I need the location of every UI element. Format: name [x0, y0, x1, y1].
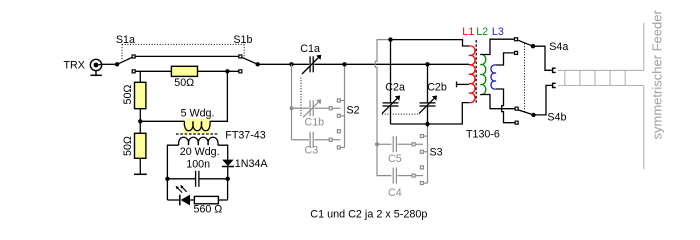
node junction mid left [165, 177, 169, 181]
wire main S1b to C2b [258, 63, 309, 65]
svg-text:50Ω: 50Ω [122, 136, 134, 156]
wire L3 bottom to S4b with hop [496, 89, 515, 123]
svg-text:S4a: S4a [549, 41, 568, 53]
svg-text:L3: L3 [492, 26, 504, 38]
capacitor C5 [377, 136, 423, 152]
resistor 50R vertical upper [135, 82, 146, 108]
svg-text:560 Ω: 560 Ω [194, 204, 223, 216]
svg-text:S3: S3 [430, 146, 443, 158]
wire L2 top to S4a [480, 39, 514, 54]
wire top link [391, 40, 470, 46]
inductor L1 [469, 46, 475, 103]
gang dotted C2a-C2b [382, 113, 418, 115]
svg-text:100n: 100n [186, 159, 210, 171]
core T130-6 dashed [475, 40, 477, 104]
connector TRX [90, 59, 102, 74]
inductor 5 Wdg. primary [184, 121, 210, 130]
core FT37-43 dashed [176, 133, 218, 135]
capacitor C3 [292, 132, 341, 148]
node junction lower wire [225, 69, 229, 73]
switch S2 bus [341, 67, 345, 148]
switch S1b [239, 55, 260, 73]
wire lower dummy-load path [136, 70, 172, 72]
node gray junction C5 [375, 142, 379, 146]
gang dotted C1a-C1b [300, 78, 302, 117]
node junction top [388, 37, 392, 41]
svg-text:C4: C4 [388, 187, 402, 199]
wire top S1a to S1b [136, 55, 239, 57]
svg-text:C3: C3 [305, 144, 319, 156]
svg-text:TRX: TRX [64, 59, 85, 71]
inductor 20 Wdg. secondary [179, 137, 218, 145]
capacitor C1a variable [302, 56, 320, 74]
gang dotted S4a-S4b [524, 44, 526, 113]
wire L3 top to S4a [496, 53, 514, 65]
wire resistor to junction [139, 109, 141, 134]
svg-text:S1b: S1b [233, 34, 252, 46]
capacitor C1b variable [303, 100, 320, 117]
switch S4a [515, 38, 552, 71]
svg-text:S2: S2 [347, 104, 360, 116]
LED D1 [176, 185, 190, 205]
svg-text:C5: C5 [388, 153, 402, 165]
svg-text:S4b: S4b [547, 111, 566, 123]
wire 20Wdg right down [218, 145, 228, 159]
svg-text:50Ω: 50Ω [122, 85, 134, 105]
switch S2 contacts [329, 99, 340, 149]
svg-text:C1 und C2 ja 2 x 5-280p: C1 und C2 ja 2 x 5-280p [310, 208, 427, 220]
wire gray C5/C4 bus with hop [375, 40, 391, 176]
diode 1N34A [222, 160, 234, 179]
wire gray C1b bus [292, 64, 341, 139]
node junction mid right [226, 177, 230, 181]
node junction S2 branch [342, 62, 346, 66]
capacitor C4 [393, 168, 423, 184]
svg-text:C2b: C2b [427, 81, 447, 93]
wire junction to 5Wdg coil [140, 120, 184, 122]
wire mid row with 100n [167, 178, 195, 180]
svg-text:symmetrischer Feeder: symmetrischer Feeder [649, 10, 664, 140]
switch S3 bus [424, 126, 428, 183]
svg-text:C1b: C1b [305, 117, 325, 129]
wire resistor to ground [139, 158, 141, 173]
wire right branch to coil [210, 71, 228, 121]
svg-text:L1: L1 [462, 26, 474, 38]
feeder ladder [558, 23, 644, 169]
node junction C1b branch [289, 62, 293, 66]
resistor 560R [194, 196, 218, 203]
terminal lower feeder [553, 83, 556, 87]
inductor L3 [491, 65, 496, 89]
svg-text:L2: L2 [476, 26, 488, 38]
node junction left branch [138, 119, 142, 123]
svg-text:5 Wdg.: 5 Wdg. [181, 108, 215, 120]
wire bottom link [391, 103, 470, 124]
svg-text:1N34A: 1N34A [235, 158, 269, 170]
svg-text:50Ω: 50Ω [174, 77, 194, 89]
wire 20Wdg left down [167, 145, 178, 200]
capacitor 100n [196, 171, 199, 187]
resistor 50R vertical lower [135, 133, 146, 158]
ground (50R chain) [134, 173, 147, 175]
terminal upper feeder [553, 68, 556, 72]
inductor L2 [480, 54, 485, 94]
switch S4b [515, 85, 552, 124]
svg-text:C1a: C1a [300, 43, 320, 55]
node junction C2b branch [425, 62, 429, 66]
capacitor C2b variable [419, 64, 436, 124]
svg-text:C2a: C2a [385, 81, 405, 93]
svg-text:20 Wdg.: 20 Wdg. [180, 146, 220, 158]
node junction bottom [425, 122, 429, 126]
wire branch down to resistors [139, 71, 141, 82]
capacitor C2a variable [382, 40, 399, 124]
switch S1a [115, 55, 135, 73]
wire TRX to S1a [102, 63, 117, 65]
wire L2 bottom to S4b [480, 95, 515, 109]
wire led row [167, 199, 179, 201]
tap terminal L1 [457, 82, 470, 88]
ground (TRX) [90, 74, 101, 76]
svg-text:T130-6: T130-6 [466, 129, 500, 141]
svg-text:FT37-43: FT37-43 [225, 129, 265, 141]
resistor 50R horizontal [171, 66, 197, 76]
switch S3 contacts [412, 135, 423, 185]
gang dotted S1a-S1b [122, 44, 244, 59]
node gray junction C1b [290, 106, 294, 110]
highlight 5 Wdg. [183, 119, 211, 134]
